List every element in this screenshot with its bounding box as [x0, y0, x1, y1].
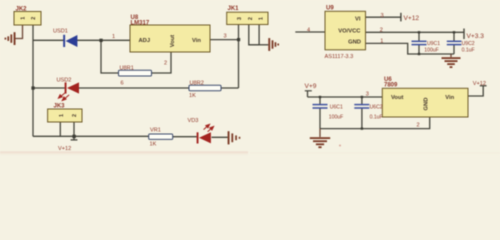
svg-text:2: 2 — [380, 28, 383, 34]
svg-text:VO/VCC: VO/VCC — [338, 28, 361, 34]
svg-text:AS1117-3.3: AS1117-3.3 — [325, 54, 354, 60]
svg-text:2: 2 — [31, 17, 37, 20]
svg-text:VI: VI — [355, 17, 361, 23]
svg-text:0.1uF: 0.1uF — [462, 48, 475, 54]
svg-text:1: 1 — [112, 34, 115, 40]
svg-text:1: 1 — [21, 17, 27, 20]
svg-text:4: 4 — [307, 27, 310, 33]
svg-text:GND: GND — [424, 98, 430, 111]
svg-text:2: 2 — [72, 114, 78, 117]
svg-text:1K: 1K — [189, 93, 196, 99]
svg-text:USD1: USD1 — [53, 29, 68, 35]
svg-text:U9C2: U9C2 — [462, 41, 475, 47]
svg-text:U9: U9 — [326, 6, 334, 12]
svg-text:V+3.3: V+3.3 — [467, 33, 485, 40]
svg-text:JK3: JK3 — [54, 104, 66, 110]
svg-text:100uF: 100uF — [329, 114, 343, 120]
svg-text:2: 2 — [417, 123, 420, 129]
svg-text:U9C1: U9C1 — [427, 41, 440, 47]
svg-text:U6C2: U6C2 — [370, 105, 383, 111]
svg-text:Vout: Vout — [391, 95, 404, 101]
svg-text:2: 2 — [248, 17, 254, 20]
svg-text:JK2: JK2 — [16, 7, 28, 13]
svg-text:V+12: V+12 — [473, 81, 486, 87]
svg-text:USD2: USD2 — [57, 77, 72, 83]
svg-text:V+9: V+9 — [305, 83, 317, 90]
svg-text:U8R2: U8R2 — [190, 80, 204, 86]
svg-text:Vin: Vin — [192, 38, 201, 44]
svg-text:3: 3 — [237, 17, 243, 20]
svg-text:3: 3 — [381, 13, 384, 19]
svg-text:ADJ: ADJ — [139, 38, 151, 44]
svg-text:Vout: Vout — [170, 35, 176, 48]
svg-text:1: 1 — [59, 114, 65, 117]
svg-text:2: 2 — [164, 61, 167, 67]
svg-text:7809: 7809 — [384, 82, 398, 88]
svg-text:3: 3 — [224, 34, 227, 40]
svg-text:Vin: Vin — [445, 95, 454, 101]
svg-text:VD3: VD3 — [188, 118, 199, 124]
svg-text:JK1: JK1 — [228, 6, 240, 12]
svg-text:U8R1: U8R1 — [120, 66, 134, 72]
svg-text:6: 6 — [121, 81, 124, 87]
svg-text:V+12: V+12 — [404, 15, 420, 22]
svg-text:U6C1: U6C1 — [330, 105, 343, 111]
svg-text:LM317: LM317 — [131, 21, 150, 27]
svg-text:0.1uF: 0.1uF — [370, 114, 383, 120]
svg-text:GND: GND — [348, 40, 361, 46]
svg-text:3: 3 — [366, 91, 369, 97]
svg-text:VR1: VR1 — [150, 128, 161, 134]
svg-text:V+12: V+12 — [58, 146, 71, 152]
svg-text:1K: 1K — [150, 142, 157, 148]
svg-text:1: 1 — [380, 39, 383, 45]
svg-text:100uF: 100uF — [424, 48, 438, 54]
svg-text:1: 1 — [259, 17, 265, 20]
